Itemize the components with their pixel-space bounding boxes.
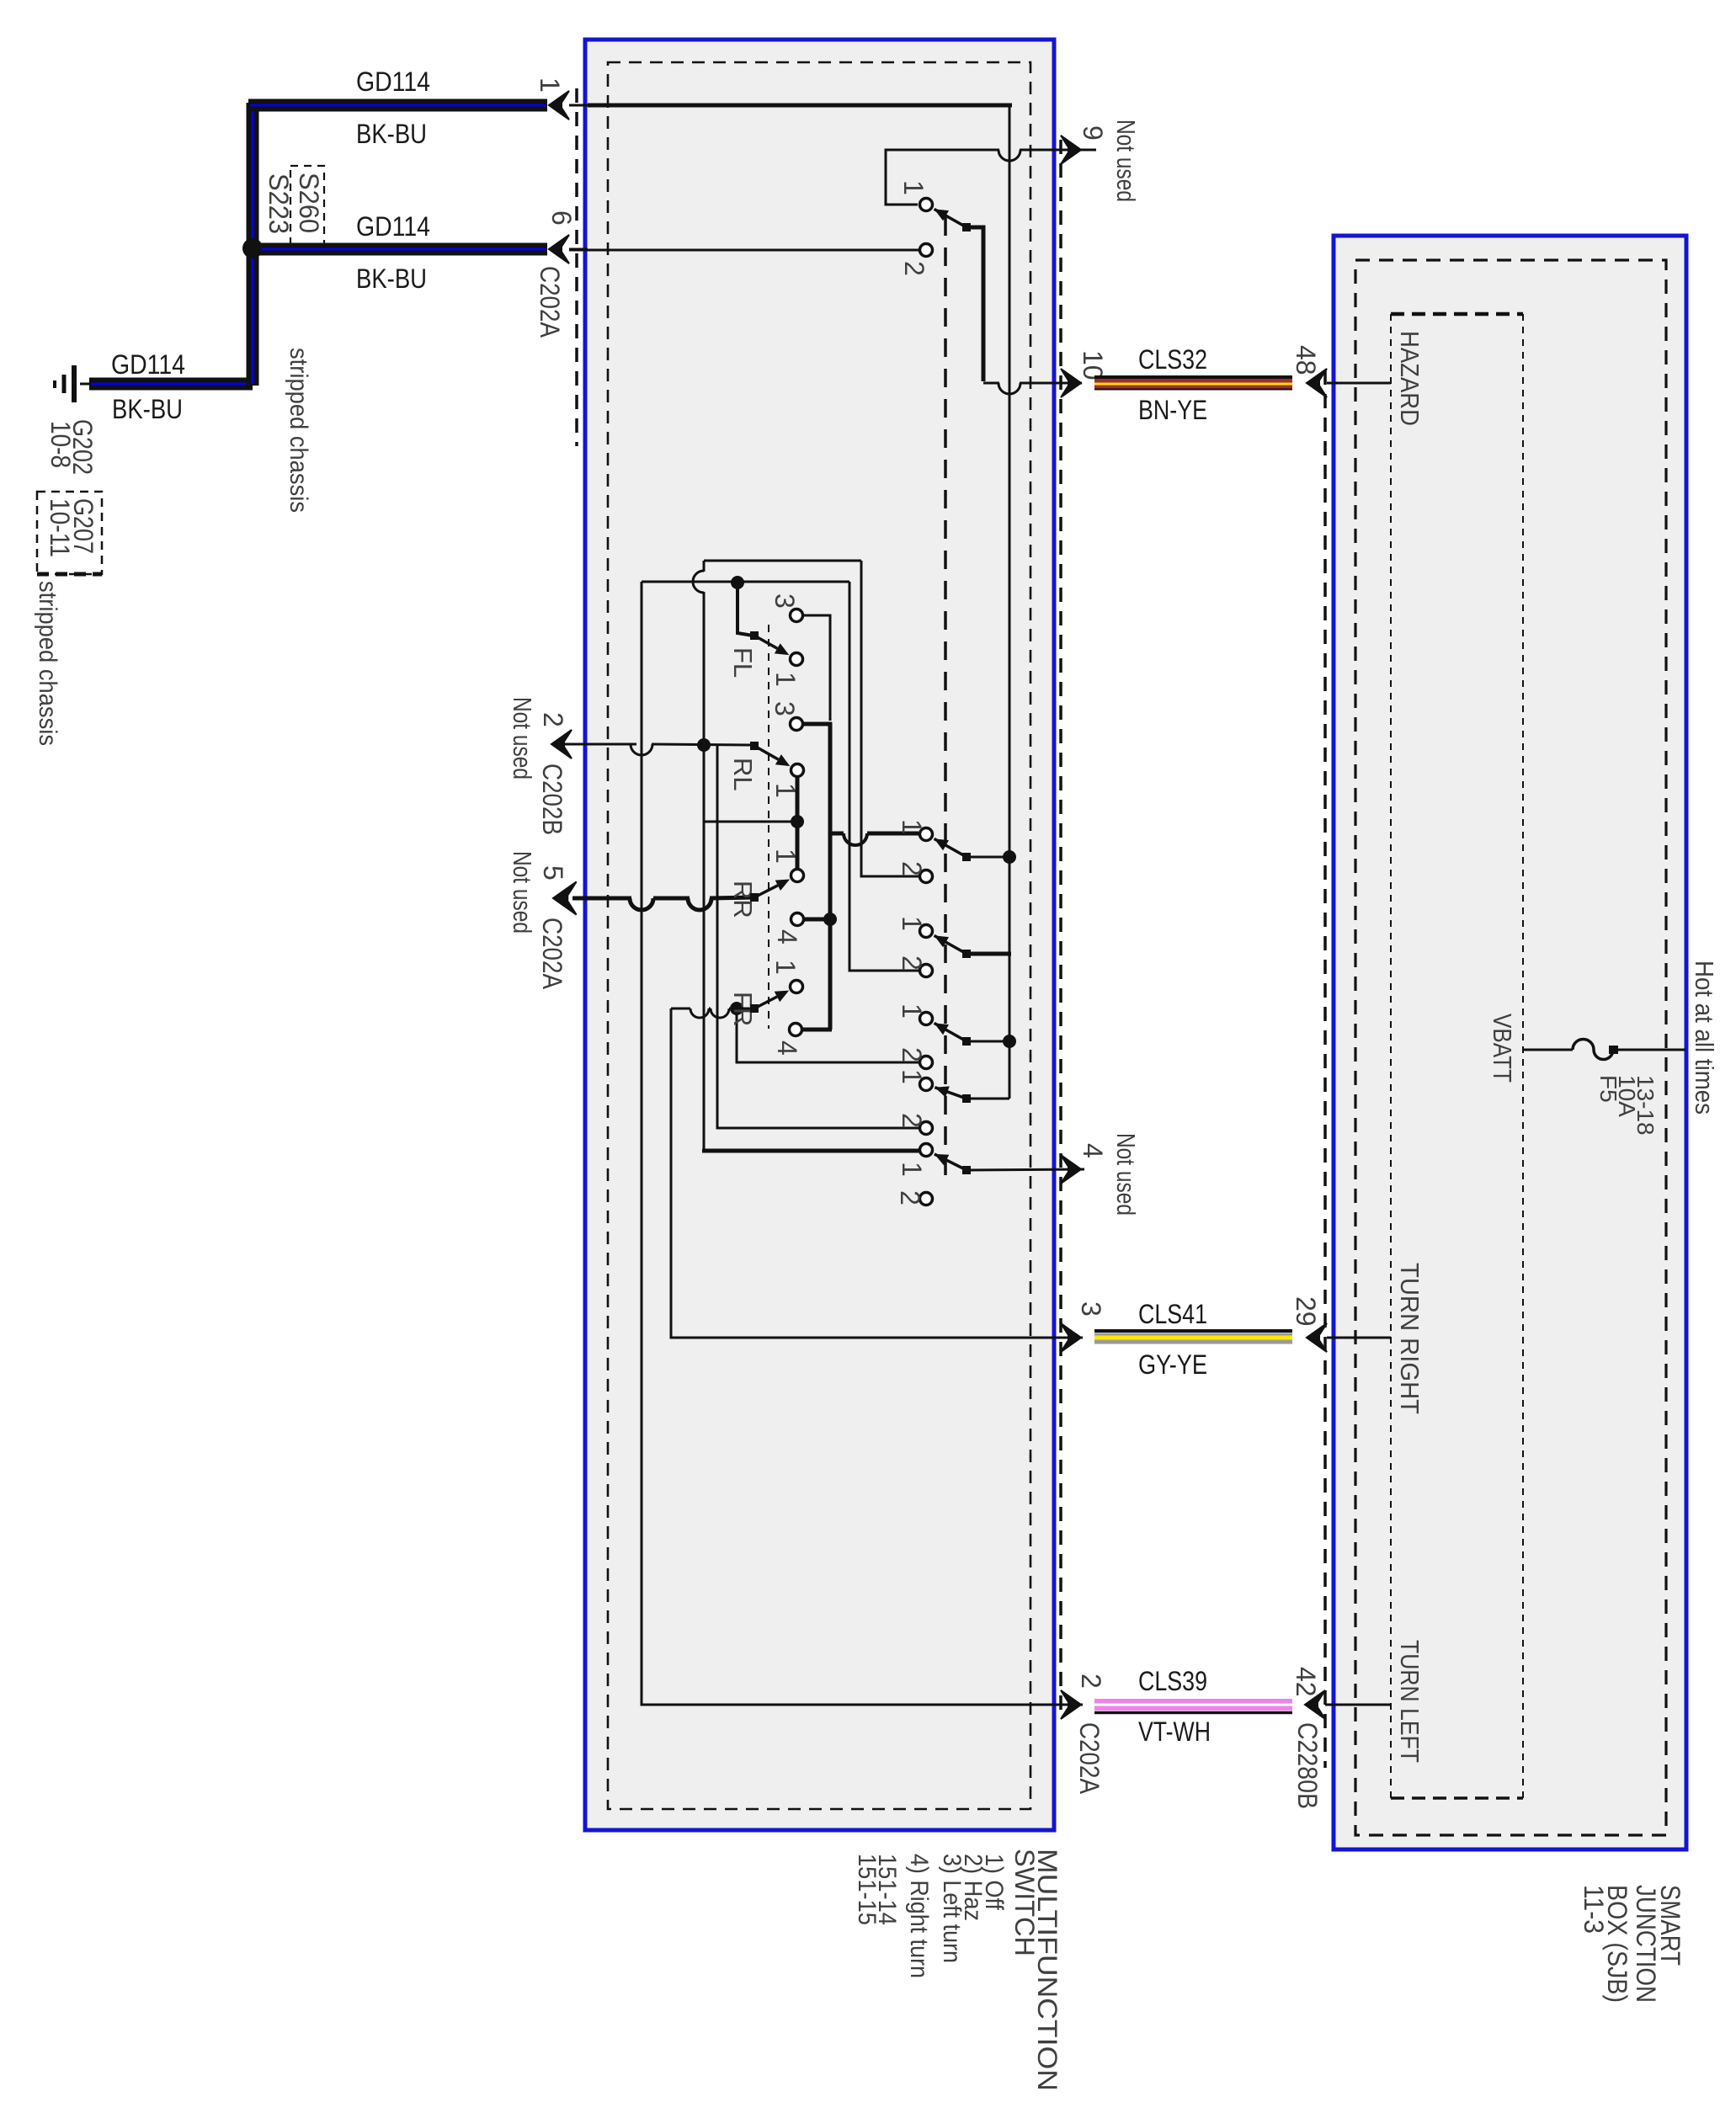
fuse F5 10A symbol [1573, 1039, 1613, 1059]
wire: FL-3 to hazard rail (thin) [802, 615, 830, 721]
wire: line to pin 10 arrow [1020, 382, 1082, 385]
svg-text:2: 2 [897, 955, 927, 971]
wire: turn-left line to pin 2 (bottom) [642, 1703, 1083, 1705]
junction dot: V3 on H3 [697, 738, 711, 752]
pin 4 arrow (not used) [1061, 1155, 1081, 1184]
junction dot: FL feed on H2 [731, 576, 744, 589]
switch S_d: pivot contact 1 [920, 1078, 933, 1091]
svg-text:9: 9 [1078, 125, 1108, 141]
wire: S_d output to ground bus corner [967, 1098, 1009, 1100]
junction dot on RL-1 rail [791, 815, 804, 828]
FL switch: blade and pivot [750, 631, 759, 640]
SJB internal dashed sub-box right side [1522, 314, 1524, 1798]
FR switch: contact 4 (lower) [790, 1024, 802, 1036]
pin 3 arrow (turn right) [1061, 1323, 1081, 1352]
svg-text:BN-YE: BN-YE [1138, 395, 1207, 425]
svg-text:2: 2 [897, 1113, 927, 1128]
svg-text:Not used: Not used [1111, 1133, 1141, 1216]
svg-text:BK-BU: BK-BU [356, 119, 427, 149]
svg-text:48: 48 [1291, 345, 1321, 375]
svg-text:CLS32: CLS32 [1138, 344, 1207, 375]
svg-text:stripped chassis: stripped chassis [285, 348, 312, 513]
svg-text:Not used: Not used [508, 851, 537, 934]
svg-text:CLS41: CLS41 [1138, 1299, 1207, 1329]
svg-text:TURN LEFT: TURN LEFT [1395, 1640, 1424, 1763]
pin 10 arrow [1061, 369, 1081, 397]
hop: pin 10 line over ground bus [998, 383, 1020, 394]
pin 1 arrow into C202A [549, 91, 569, 120]
switch S_a: contact 2 [920, 870, 933, 883]
wire: S_a output to ground bus [967, 856, 1009, 859]
FL switch: contact 3 [791, 609, 803, 622]
svg-text:2: 2 [897, 1047, 927, 1062]
hop: not-used-9 line over ground bus [998, 150, 1020, 161]
wire: line to pin 9 after hop [1020, 149, 1096, 152]
wire: top switch output (thick) to CLS32 pin 10 [967, 227, 983, 381]
wire V7: H1 right corner down to S_a contact 2 [861, 561, 919, 876]
wire: pin 1 ground bus into box (thick) [588, 104, 1012, 108]
wire GD114 BK-BU to pin 1 [248, 99, 547, 112]
switch S_b: pivot contact 1 [920, 925, 933, 938]
SJB internal dashed sub-box left side [1390, 314, 1392, 1798]
switch S_a: pivot contact 1 [920, 828, 933, 841]
svg-text:HAZARD: HAZARD [1395, 331, 1424, 426]
wire: FR-4 to hazard rail (thick) [801, 1028, 832, 1032]
svg-text:2: 2 [899, 261, 929, 276]
top switch (hazard) pivot feed loop [886, 150, 999, 205]
switch S_e: pivot contact 1 (fed by thick wire) [920, 1144, 933, 1157]
svg-text:1: 1 [897, 1003, 927, 1019]
wire: pin 42 line into SJB turn-left input [1325, 1704, 1391, 1706]
wire: RL-3 to hazard rail (thick) [802, 722, 832, 726]
RR switch: contact 4 (lower) [791, 913, 804, 926]
switch S_e: blade [935, 1154, 950, 1165]
wire: pin 6 line to top switch contact 2 [569, 249, 919, 252]
wire: S_e output to pin 4 (not used) [967, 1169, 1084, 1170]
svg-text:S260: S260 [294, 173, 324, 233]
junction dot: RR-4 on hazard rail [823, 913, 837, 926]
wire CLS32 BN-YE (brown-yellow) between boxes [1094, 375, 1292, 379]
wire: S_b output (thick) to ground bus [967, 952, 1011, 956]
pin 6 arrow into C202A [549, 235, 569, 263]
svg-text:42: 42 [1291, 1667, 1321, 1697]
pin 29 arrow into SJB [1307, 1323, 1327, 1352]
svg-text:CLS39: CLS39 [1138, 1666, 1207, 1696]
mechanical gang dashed line, right switch bank [944, 217, 947, 1175]
svg-text:GD114: GD114 [111, 349, 185, 380]
wire CLS39 VT-WH (violet-white) [1094, 1699, 1292, 1711]
wire: RR-4 to hazard rail (thick) [802, 918, 830, 922]
pin 42 arrow into SJB [1305, 1690, 1325, 1719]
connector C202 dashed face, left of multifunction switch box [575, 88, 578, 446]
svg-text:4: 4 [772, 929, 802, 945]
svg-text:VT-WH: VT-WH [1138, 1716, 1211, 1747]
FL switch: contact 1 [791, 653, 803, 666]
wire H1: upper loop from rail V3 to S_a contact-2 drop [704, 560, 861, 562]
top switch: blade [935, 209, 949, 221]
svg-text:3) Left turn: 3) Left turn [938, 1854, 966, 1963]
wire: hazard rail feed to S_a pivot (thick) with wide hop [830, 832, 844, 836]
wire CLS41 GY-YE (gray-yellow) [1094, 1329, 1292, 1333]
svg-text:1: 1 [770, 960, 801, 975]
RL switch: contact 3 [791, 718, 803, 731]
ground symbol G202 [80, 383, 91, 386]
svg-text:11-3: 11-3 [1579, 1885, 1609, 1934]
SJB internal dashed sub-box top (hazard/turn circuits) [1391, 312, 1523, 317]
wire V4 rail: from H3 down to S_d contact-2 line [717, 745, 919, 1128]
svg-text:1: 1 [898, 180, 929, 195]
svg-text:C202B: C202B [537, 764, 567, 835]
wire V1 rail: from H2 down to CLS39 turn-left output [641, 582, 643, 1703]
svg-text:Not used: Not used [508, 697, 537, 780]
connector C202 dashed face, right of multifunction switch box [1059, 140, 1062, 1713]
svg-text:4) Right turn: 4) Right turn [905, 1854, 933, 1978]
wire: 'Not used' pin 5 C202A thick line H5 to RR pivot [572, 897, 631, 901]
wire GD114 BK-BU ground leg [89, 378, 253, 391]
svg-text:2: 2 [538, 712, 568, 727]
svg-text:13-18: 13-18 [1632, 1075, 1659, 1136]
svg-text:4: 4 [772, 1040, 802, 1056]
svg-text:2: 2 [897, 861, 927, 876]
switch S_a: blade [935, 838, 949, 850]
svg-text:151-15: 151-15 [853, 1854, 881, 1925]
svg-text:VBATT: VBATT [1488, 1014, 1517, 1083]
connector C2280B dashed face, left of SJB [1323, 370, 1327, 1768]
switch S_d: blade [935, 1086, 949, 1097]
svg-text:stripped chassis: stripped chassis [34, 581, 61, 746]
svg-text:Hot at all times: Hot at all times [1690, 961, 1719, 1115]
svg-text:10-11: 10-11 [45, 498, 75, 557]
FR switch: contact 1 (upper) [791, 981, 803, 993]
wire: ground bus vertical drop x=1199 [1009, 105, 1011, 1099]
svg-text:BK-BU: BK-BU [112, 394, 183, 424]
multifunction switch component box (blue) [585, 40, 1054, 1830]
svg-text:1: 1 [770, 672, 801, 687]
wire GD114 BK-BU to pin 6 [259, 243, 547, 256]
svg-text:GD114: GD114 [356, 211, 430, 242]
splice S260 / S223 junction dot [242, 238, 263, 258]
switch S_d: contact 2 [920, 1122, 933, 1135]
wire: VBATT feed line [1524, 1049, 1573, 1051]
top switch: contact circle 1 (pivot) [920, 199, 933, 211]
wire V2 rail: turn-right from H7 down to pin 3 line [671, 1008, 1083, 1338]
svg-text:3: 3 [769, 593, 800, 609]
svg-text:JUNCTION: JUNCTION [1631, 1885, 1661, 2003]
wire H2: loop from V1 to S_b contact-2 drop [642, 581, 849, 583]
junction dot: V5 on H7 [730, 1002, 743, 1015]
svg-text:1: 1 [897, 916, 927, 931]
svg-text:4: 4 [1078, 1143, 1108, 1158]
switch S_e: contact 2 [920, 1193, 933, 1205]
smart junction box (SJB) component box (blue) [1334, 236, 1686, 1849]
svg-text:3: 3 [1076, 1301, 1106, 1317]
svg-text:C202A: C202A [1074, 1722, 1105, 1795]
ground reference box G207 10-11 (dashed) [37, 492, 102, 574]
wire: fuse to box edge (hot at all times) [1613, 1049, 1685, 1051]
svg-text:10-8: 10-8 [45, 421, 76, 468]
switch S_c: pivot contact 1 [920, 1013, 933, 1025]
wire V3 rail: from H1 down to switch FR/S_e area [703, 561, 706, 572]
switch S_b: blade [935, 935, 949, 947]
wire: pin 48 line into SJB hazard input [1327, 382, 1391, 385]
SJB internal dashed sub-box bottom [1391, 1796, 1523, 1800]
svg-text:1: 1 [770, 849, 801, 864]
svg-text:6: 6 [546, 210, 577, 226]
svg-text:29: 29 [1291, 1296, 1321, 1327]
svg-text:BK-BU: BK-BU [356, 263, 427, 294]
hazard rail vertical x=986 (thick) [828, 722, 833, 1030]
pin 5 (C202A) arrow [553, 881, 577, 914]
junction dot: S_c output on bus [1003, 1035, 1016, 1048]
svg-text:RL: RL [728, 758, 758, 791]
svg-text:FL: FL [728, 647, 758, 678]
svg-text:GD114: GD114 [356, 67, 430, 97]
wire: branch from RL-1 rail to V3 [704, 821, 797, 823]
svg-text:GY-YE: GY-YE [1138, 1349, 1207, 1380]
switch S_c: blade [935, 1023, 949, 1035]
svg-text:Not used: Not used [1111, 120, 1141, 202]
wire: FL pivot feed (thick) [738, 583, 753, 636]
switch S_b: contact 2 [920, 965, 933, 977]
svg-text:1: 1 [897, 1162, 927, 1177]
mechanical gang dashed line, FL/RL/RR/FR switch bank [768, 625, 769, 1029]
RL switch: contact 1 [791, 764, 804, 777]
multifunction switch inner dashed outline [608, 62, 1030, 1809]
wire V3 bottom corner to thick feed of bottom-right switch [702, 1149, 924, 1153]
svg-text:SWITCH: SWITCH [1009, 1849, 1040, 1956]
pin 9 arrow (not used) [1061, 136, 1081, 164]
wire: S_c output to ground bus [967, 1040, 1009, 1043]
svg-text:1: 1 [535, 77, 565, 93]
junction dot: S_a output on bus [1003, 850, 1016, 864]
wire: pin 29 line into SJB turn-right input [1327, 1337, 1391, 1339]
RL switch: blade and pivot [750, 742, 759, 750]
svg-text:2: 2 [895, 1190, 925, 1205]
svg-text:TURN RIGHT: TURN RIGHT [1395, 1263, 1424, 1414]
wire: 'Not used' pin 2 C202B line H3 to RL pivot [564, 743, 636, 746]
wire: RL-1 down-rail to RR-1 (thick) [796, 776, 800, 870]
wire GD114 vertical trunk with splice [247, 103, 259, 386]
SJB inner dashed outline [1355, 260, 1666, 1835]
pin 2 (C202B) arrow [551, 730, 572, 758]
RR switch: contact 1 (upper) [791, 870, 804, 882]
label S260 with dashed box [290, 166, 324, 246]
wire V5: H7 down to S_c contact-2 line [737, 1008, 919, 1062]
RR switch: blade and pivot [750, 893, 759, 902]
pin 48 arrow into SJB [1307, 369, 1327, 397]
switch S_c: contact 2 [920, 1056, 933, 1069]
svg-text:2: 2 [1076, 1674, 1106, 1689]
wire: FR pivot feed H7 from turn-right rail V2 [671, 1008, 690, 1010]
svg-text:C202A: C202A [537, 918, 567, 990]
svg-text:1: 1 [897, 1069, 927, 1084]
FR switch: blade and pivot [750, 1004, 759, 1013]
svg-text:C202A: C202A [535, 266, 565, 338]
svg-text:S223: S223 [264, 173, 294, 234]
svg-text:5: 5 [538, 865, 568, 881]
wire V6: H2 right corner down to S_b contact 2 [849, 582, 919, 971]
svg-text:3: 3 [769, 701, 800, 716]
top switch: contact circle 2 [920, 244, 933, 257]
svg-text:1: 1 [897, 819, 927, 834]
pin 2 arrow (turn left, C202A) [1061, 1690, 1081, 1719]
svg-text:C2280B: C2280B [1292, 1722, 1323, 1809]
